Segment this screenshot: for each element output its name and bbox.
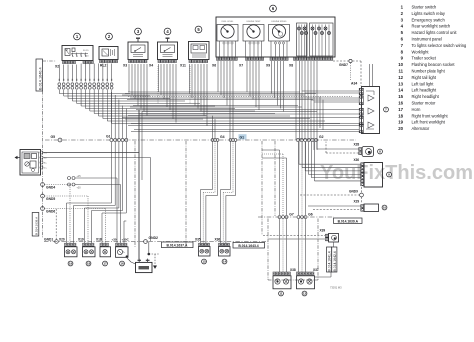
battery feed wire: [43, 110, 150, 260]
svg-text:19: 19: [398, 120, 403, 125]
connector X6 strip: [212, 58, 237, 68]
battery junction: [127, 242, 160, 269]
legend list 1-20: [398, 5, 467, 132]
label 18: [86, 261, 91, 266]
node G2 pins: [296, 135, 323, 142]
svg-text:Right front worklight: Right front worklight: [412, 113, 449, 118]
gauge fuel level: [217, 21, 238, 57]
svg-text:GND1: GND1: [44, 238, 53, 242]
part number B.014.1642.4: [332, 247, 337, 272]
svg-text:X6: X6: [212, 64, 216, 68]
svg-text:20: 20: [398, 126, 403, 131]
connector X9 strip: [266, 58, 288, 68]
lights switch relay 2: [99, 47, 118, 60]
label 4: [164, 28, 171, 35]
svg-text:12: 12: [398, 75, 403, 80]
connector pin row: [58, 79, 113, 89]
svg-text:19: 19: [69, 262, 73, 266]
svg-text:Emergency switch: Emergency switch: [412, 17, 446, 22]
wires to selector box: [302, 91, 360, 130]
svg-text:17: 17: [398, 107, 403, 112]
label 12: [279, 291, 284, 296]
label 14: [222, 259, 227, 264]
starter switch 1: [62, 46, 93, 61]
svg-text:Horn: Horn: [412, 107, 422, 112]
label 2: [106, 33, 113, 40]
node GND7: [333, 59, 361, 86]
svg-text:GND5: GND5: [46, 197, 55, 201]
svg-text:X36: X36: [215, 238, 221, 242]
svg-text:G1: G1: [106, 135, 111, 139]
node G4 pins: [211, 135, 225, 142]
wires to pin row: [59, 64, 111, 82]
part number B.014.1643.4: [233, 242, 265, 248]
connector X8 strip: [289, 58, 333, 68]
svg-text:X38: X38: [290, 268, 296, 272]
svg-text:Right headlight: Right headlight: [412, 94, 440, 99]
part number B.014.1639.A: [334, 218, 363, 223]
svg-text:GND2: GND2: [149, 236, 159, 240]
svg-text:B.014.1639.A: B.014.1639.A: [338, 219, 359, 223]
svg-text:X11: X11: [180, 64, 186, 68]
svg-text:Worklight: Worklight: [412, 49, 430, 54]
hazard lights control unit 5: [189, 42, 210, 60]
watermark: [320, 162, 473, 184]
label 1: [74, 33, 81, 40]
connector X29: [354, 200, 360, 204]
svg-text:G6: G6: [308, 213, 313, 217]
node GND4: [41, 183, 56, 190]
svg-text:Alternator: Alternator: [412, 126, 430, 131]
svg-text:FUEL LEVEL: FUEL LEVEL: [222, 21, 235, 23]
svg-text:Flashing beacon socket: Flashing beacon socket: [412, 62, 456, 67]
svg-text:11: 11: [398, 69, 403, 74]
svg-text:Starter switch: Starter switch: [412, 5, 438, 10]
left harness boundary: [43, 61, 57, 238]
svg-text:Left headlight: Left headlight: [412, 88, 437, 93]
node GND6: [41, 207, 56, 214]
svg-text:G5: G5: [51, 135, 56, 139]
svg-text:GND9: GND9: [349, 190, 358, 194]
trailer socket 9: [361, 163, 383, 188]
label 17: [103, 261, 108, 266]
svg-text:ENGINE TEMP: ENGINE TEMP: [247, 21, 261, 23]
connector X35 strip: [195, 238, 210, 247]
svg-text:X37: X37: [313, 268, 319, 272]
horn wires: [263, 236, 325, 240]
svg-text:X7: X7: [239, 64, 243, 68]
left front worklight 19: [65, 247, 78, 257]
battery: [136, 259, 153, 273]
GND2 bus line: [44, 241, 268, 243]
horn 17: [100, 247, 111, 257]
svg-text:+30C: +30C: [122, 238, 130, 242]
ground bus line 2: [258, 216, 334, 218]
svg-text:Starter motor: Starter motor: [412, 101, 437, 106]
connector X39: [320, 229, 326, 233]
terminal +15: [68, 175, 118, 180]
label 9: [387, 172, 392, 177]
horn socket: [325, 234, 338, 243]
svg-text:X30: X30: [354, 158, 360, 162]
wire below part boxes: [315, 242, 334, 277]
svg-text:Rear worklight switch: Rear worklight switch: [412, 24, 451, 29]
svg-text:X2: X2: [55, 65, 59, 69]
svg-text:GND4: GND4: [46, 185, 55, 189]
svg-text:13: 13: [398, 81, 403, 86]
svg-text:B.014.1637.A: B.014.1637.A: [167, 244, 188, 248]
svg-text:G1: G1: [240, 136, 245, 140]
node G7 pins: [278, 213, 294, 219]
svg-text:G4: G4: [220, 135, 225, 139]
svg-text:GND6: GND6: [46, 209, 55, 213]
svg-text:X18: X18: [96, 238, 102, 242]
svg-text:30 15: 30 15: [83, 50, 89, 52]
drawing number: [330, 286, 342, 290]
label 7: [384, 107, 389, 112]
connector X11 strip: [180, 60, 208, 68]
svg-text:Left tail light: Left tail light: [412, 81, 435, 86]
svg-text:10: 10: [383, 206, 387, 210]
svg-text:73031 M3: 73031 M3: [330, 286, 342, 290]
fuse box terminals: [40, 151, 48, 170]
terminal +30: [68, 183, 121, 190]
wire mesh left: [59, 90, 340, 124]
worklight wires: [317, 142, 359, 153]
svg-text:Hazard lights control unit: Hazard lights control unit: [412, 30, 458, 35]
trailer socket wires: [299, 142, 361, 181]
part number B.014.1638.A: [32, 213, 39, 237]
node GND5: [41, 194, 56, 201]
harness boundary verticals: [135, 141, 275, 247]
svg-text:X3: X3: [123, 64, 127, 68]
svg-text:Number plate light: Number plate light: [412, 69, 446, 74]
right headlight 15: [199, 247, 211, 257]
right harness dashed box: [268, 219, 318, 281]
svg-text:X28: X28: [354, 143, 360, 147]
starter motor 16: [116, 247, 129, 258]
worklight 8: [359, 147, 374, 157]
svg-text:11: 11: [279, 292, 283, 296]
connector X37 strip: [297, 268, 319, 275]
connector X4 strip: [149, 60, 176, 68]
svg-text:B.014.1642.4: B.014.1642.4: [333, 251, 337, 271]
svg-text:Instrument panel: Instrument panel: [412, 37, 443, 42]
svg-text:A34: A34: [351, 82, 357, 86]
svg-text:16: 16: [398, 101, 403, 106]
svg-text:X4: X4: [149, 64, 153, 68]
wire drops X8 to G2: [296, 61, 317, 150]
rear worklight switch 4: [158, 38, 178, 59]
svg-text:B.014.1640.4: B.014.1640.4: [38, 67, 42, 90]
right tail light 12: [273, 276, 291, 289]
label 15: [202, 259, 207, 264]
svg-text:X19: X19: [78, 238, 84, 242]
instrument panel 6: [216, 17, 335, 57]
svg-text:Trailer socket: Trailer socket: [412, 56, 437, 61]
part number B.014.1640.4: [36, 59, 43, 91]
left tail light 13: [297, 276, 315, 289]
svg-text:X39: X39: [320, 229, 326, 233]
label 3: [135, 28, 142, 35]
svg-text:12: 12: [303, 292, 307, 296]
node GND2: [144, 236, 158, 243]
right front worklight 18: [83, 247, 96, 257]
lights selector connector A34 7: [351, 64, 380, 134]
tail light wire bundles: [262, 142, 306, 272]
svg-text:X9: X9: [266, 64, 270, 68]
svg-text:+30: +30: [112, 238, 117, 242]
node GND9: [300, 187, 363, 203]
svg-text:X8: X8: [289, 64, 293, 68]
wire band: [122, 92, 360, 132]
svg-text:Left front worklight: Left front worklight: [412, 120, 446, 125]
svg-text:B.014.1638.A: B.014.1638.A: [34, 217, 38, 235]
dotted guide verticals: [158, 66, 190, 104]
part number B.014.1641.4: [327, 247, 332, 272]
svg-text:To lights selector switch wiri: To lights selector switch wiring: [412, 43, 468, 48]
svg-text:+15: +15: [77, 175, 82, 178]
connector X7 strip: [239, 58, 264, 68]
svg-text:B.014.1641.4: B.014.1641.4: [328, 251, 332, 271]
connector RL2 strip: [100, 60, 118, 68]
gauge engine temp: [243, 21, 264, 57]
svg-text:Lights switch relay: Lights switch relay: [412, 11, 446, 16]
svg-text:17: 17: [103, 262, 107, 266]
svg-text:RL2: RL2: [100, 64, 107, 68]
connector X36 strip: [215, 238, 230, 247]
svg-text:G7: G7: [289, 213, 294, 217]
svg-text:X35: X35: [195, 238, 201, 242]
svg-text:G2: G2: [319, 135, 324, 139]
svg-text:14: 14: [398, 88, 403, 93]
G1 wire bundle: [67, 92, 127, 243]
svg-text:18: 18: [87, 262, 91, 266]
node GND1: [44, 209, 58, 243]
svg-text:GND7: GND7: [339, 63, 348, 67]
connector X18 strip: [96, 238, 108, 247]
svg-text:16: 16: [120, 262, 124, 266]
svg-text:10: 10: [398, 62, 403, 67]
svg-text:15: 15: [398, 94, 403, 99]
wires to front worklights: [44, 178, 126, 243]
headlight wire bundles: [201, 116, 236, 244]
beacon wires: [308, 206, 361, 210]
left headlight 14: [219, 247, 231, 257]
node G5: [51, 135, 62, 142]
starter motor terminals: [112, 238, 130, 247]
svg-text:X20: X20: [59, 238, 65, 242]
svg-text:+30: +30: [77, 187, 82, 190]
part number B.014.1637.A: [162, 242, 194, 248]
svg-text:18: 18: [398, 113, 403, 118]
node G3 highlighted: [229, 134, 246, 141]
label 13: [302, 291, 307, 296]
node G6 pins: [297, 213, 313, 219]
emergency switch 3: [128, 38, 148, 59]
label 5: [195, 26, 202, 33]
svg-text:ENGINE SPEED: ENGINE SPEED: [271, 21, 287, 23]
dashed band wire: [128, 96, 352, 98]
label 6: [270, 5, 277, 12]
connector X30: [354, 158, 360, 162]
connector X19 strip: [78, 238, 94, 247]
connector X2 strip: [55, 61, 93, 69]
connector X3 strip: [123, 60, 147, 68]
gauge engine speed: [269, 21, 290, 57]
node G1 pins: [106, 135, 128, 142]
svg-text:Right tail light: Right tail light: [412, 75, 437, 80]
svg-text:B.014.1643.4: B.014.1643.4: [238, 244, 258, 248]
svg-text:14: 14: [223, 260, 227, 264]
label 16: [120, 261, 125, 266]
indicator lamp cluster A: [297, 23, 308, 57]
wire drops top components: [129, 61, 284, 139]
indicator lamp cluster B: [310, 23, 334, 57]
connector X28: [354, 143, 360, 147]
svg-text:15: 15: [202, 260, 206, 264]
label 10: [382, 205, 387, 210]
fuse relay box: [15, 150, 41, 176]
ground bus line: [45, 139, 356, 141]
flashing beacon socket 10: [361, 204, 379, 212]
connector X38 strip: [273, 268, 296, 275]
label 8: [378, 149, 383, 154]
svg-text:X29: X29: [354, 200, 360, 204]
label 19: [68, 261, 73, 266]
connector X20 strip: [59, 238, 76, 247]
